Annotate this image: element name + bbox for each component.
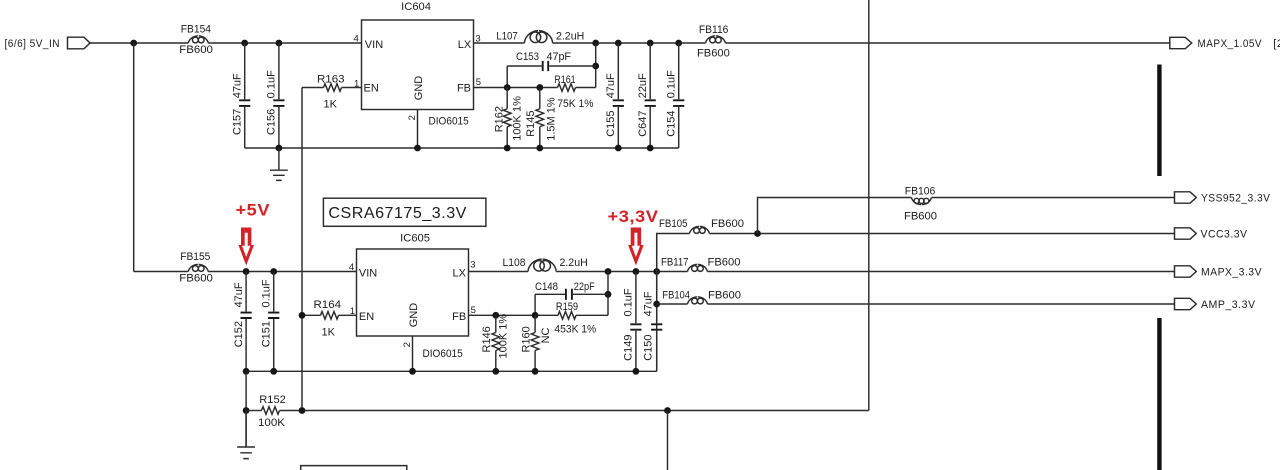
- pin 5 FB of IC605: [452, 305, 476, 323]
- svg-text:47pF: 47pF: [547, 51, 572, 63]
- svg-text:VIN: VIN: [365, 39, 383, 51]
- wire FB117 to MAPX_3.3V port: [707, 271, 1174, 273]
- svg-text:YSS952_3.3V: YSS952_3.3V: [1201, 193, 1271, 205]
- op IC604 regulator box: [362, 20, 474, 110]
- wire IC605 FB pin 5 to R159: [469, 314, 559, 316]
- wire L107 to FB116 (1.05V rail): [553, 42, 706, 44]
- capacitor C647 22uF: [637, 43, 656, 148]
- svg-text:GND: GND: [413, 76, 425, 101]
- svg-text:100K: 100K: [258, 417, 286, 429]
- wire 5V feed to FB155: [134, 271, 189, 273]
- svg-text:+3,3V: +3,3V: [608, 208, 659, 226]
- junction FB / R162 / C153 stub: [504, 84, 511, 91]
- junction C154 top: [675, 40, 682, 47]
- svg-text:EN: EN: [364, 82, 379, 94]
- svg-text:FB600: FB600: [708, 289, 741, 301]
- capacitor C149 0.1uF: [623, 272, 642, 372]
- wire FB155 to IC605 VIN pin 4: [208, 271, 356, 273]
- wire IC604 GND pin 2 to ground rail: [417, 110, 419, 149]
- svg-text:FB106: FB106: [905, 186, 936, 198]
- svg-text:GND: GND: [408, 303, 420, 328]
- wire EN rail up to top sheet: [868, 0, 870, 411]
- junction FB104 tee: [653, 301, 660, 308]
- svg-text:3: 3: [470, 260, 475, 271]
- svg-text:C152: C152: [233, 321, 245, 347]
- wire IC605 GND pin 2 to ground rail: [412, 336, 414, 371]
- wire EN rail branch to lower sheet: [667, 411, 669, 470]
- wire C153 left stub down to FB node: [506, 66, 508, 88]
- capacitor C154 0.1uF: [666, 43, 685, 148]
- input port 5V_IN [6/6]: [5, 37, 91, 50]
- capacitor C156 0.1uF: [266, 43, 285, 148]
- svg-text:22uF: 22uF: [637, 73, 649, 98]
- pin 2 GND of IC604: [407, 76, 425, 121]
- svg-text:47uF: 47uF: [605, 73, 617, 98]
- resistor R161 75K 1%: [554, 74, 595, 110]
- svg-text:FB: FB: [452, 311, 466, 323]
- op IC605 regulator box: [357, 249, 469, 336]
- pin 4 VIN of IC605: [349, 262, 377, 280]
- junction rail R162: [504, 145, 511, 152]
- node +5V / C152 top: [243, 268, 250, 275]
- junction EN rail branch down: [664, 407, 671, 414]
- resistor R146 100K 1%: [481, 314, 510, 372]
- wire EN net vertical (R163/R164/R152): [301, 88, 303, 411]
- svg-text:L107: L107: [496, 30, 517, 42]
- svg-text:FB600: FB600: [904, 210, 937, 222]
- svg-text:R159: R159: [556, 301, 578, 313]
- svg-text:R163: R163: [317, 74, 345, 86]
- svg-text:100K 1%: 100K 1%: [497, 314, 509, 359]
- junction C156 top: [276, 40, 283, 47]
- wire IC604 LX pin 3 to L107: [474, 42, 525, 44]
- svg-text:NC: NC: [540, 327, 552, 343]
- junction rail C151: [270, 368, 277, 375]
- pin 3 LX of IC604: [458, 33, 481, 51]
- wire FB105 to VCC3.3V port: [709, 233, 1174, 235]
- svg-text:2.2uH: 2.2uH: [556, 30, 584, 42]
- ferrite bead FB106: [912, 198, 932, 205]
- resistor R145 1.5M 1%: [525, 88, 558, 149]
- wire R152 to EN-net rail: [280, 410, 869, 412]
- ground rail of IC605 section: [246, 370, 657, 372]
- svg-text:R161: R161: [554, 74, 575, 86]
- capacitor C157 47uF: [232, 43, 251, 148]
- ferrite bead FB155: [188, 264, 208, 271]
- junction R152 left: [243, 407, 250, 414]
- svg-text:FB600: FB600: [179, 44, 213, 56]
- junction rail C149: [633, 368, 640, 375]
- svg-text:1: 1: [354, 78, 359, 89]
- svg-text:FB: FB: [457, 83, 471, 95]
- inductor L108 2.2uH: [528, 259, 556, 271]
- svg-text:2: 2: [407, 115, 418, 120]
- svg-text:1: 1: [350, 306, 355, 317]
- resistor R152 100K: [246, 394, 286, 429]
- svg-text:1K: 1K: [324, 98, 338, 110]
- junction rail C152: [243, 368, 250, 375]
- svg-text:75K 1%: 75K 1%: [557, 98, 593, 110]
- svg-text:MAPX_3.3V: MAPX_3.3V: [1201, 267, 1262, 279]
- junction rail IC604 GND: [414, 145, 421, 152]
- wire node X vertical: [595, 43, 597, 88]
- resistor R162 100K 1%: [493, 88, 523, 149]
- resistor R163 1K: [302, 74, 362, 111]
- svg-text:FB105: FB105: [659, 218, 688, 230]
- bus bar lower right: [1157, 318, 1161, 470]
- resistor R160 NC: [521, 315, 552, 371]
- svg-text:R145: R145: [525, 111, 537, 137]
- svg-text:47uF: 47uF: [233, 282, 245, 307]
- wire branch to FB104: [657, 303, 688, 305]
- svg-text:5: 5: [476, 77, 481, 88]
- junction FB / R160 / C148 stub: [532, 312, 539, 319]
- wire L108 to FB117 (3.3V rail): [556, 271, 687, 273]
- svg-text:C150: C150: [642, 335, 654, 361]
- svg-text:IC605: IC605: [400, 232, 430, 244]
- svg-text:22pF: 22pF: [574, 281, 595, 293]
- output port AMP_3.3V: [1175, 298, 1256, 311]
- node X2 feedback tap on 3.3V rail: [605, 268, 612, 275]
- wire 3.3V branch up to FB105: [657, 234, 690, 272]
- partial title box of next section: [301, 466, 407, 470]
- node X feedback tap on 1.05V rail: [592, 40, 599, 47]
- red arrow pointing to +3.3V node: [628, 228, 644, 266]
- svg-text:DIO6015: DIO6015: [423, 348, 463, 360]
- svg-text:R162: R162: [493, 106, 505, 132]
- svg-text:AMP_3.3V: AMP_3.3V: [1201, 299, 1256, 311]
- svg-text:LX: LX: [458, 39, 472, 51]
- svg-text:DIO6015: DIO6015: [429, 116, 469, 128]
- svg-text:C149: C149: [623, 335, 635, 361]
- junction EN net / R164: [299, 312, 306, 319]
- svg-text:C156: C156: [266, 109, 278, 135]
- junction C647 top: [647, 40, 654, 47]
- svg-text:R164: R164: [314, 299, 342, 311]
- pin 5 FB of IC604: [457, 77, 481, 95]
- svg-text:FB116: FB116: [699, 24, 729, 36]
- capacitor C155 47uF: [605, 43, 624, 148]
- svg-text:4: 4: [349, 262, 354, 273]
- svg-text:47uF: 47uF: [642, 291, 654, 316]
- wire 5V_IN to FB154: [90, 42, 188, 44]
- svg-text:IC604: IC604: [401, 1, 431, 13]
- junction C148 right / node X2: [605, 291, 612, 298]
- svg-text:VIN: VIN: [359, 268, 377, 280]
- pin 2 GND of IC605: [402, 303, 420, 348]
- wire FB154 to IC604 VIN pin 4: [208, 42, 361, 44]
- svg-text:C148: C148: [535, 281, 558, 293]
- svg-text:47uF: 47uF: [232, 73, 244, 98]
- wire FB104 to AMP_3.3V port: [707, 303, 1174, 305]
- svg-text:C647: C647: [637, 111, 649, 137]
- svg-text:FB154: FB154: [181, 23, 211, 35]
- svg-text:MAPX_1.05V: MAPX_1.05V: [1198, 38, 1263, 50]
- node +3.3V / C149 top: [633, 268, 640, 275]
- junction FB / R146: [492, 312, 499, 319]
- pin 4 VIN of IC604: [354, 33, 384, 51]
- junction rail C156: [276, 145, 283, 152]
- svg-text:CSRA67175_3.3V: CSRA67175_3.3V: [328, 205, 467, 222]
- wire node X2 vertical: [607, 272, 609, 316]
- svg-text:C155: C155: [605, 111, 617, 137]
- junction C155 top: [615, 40, 622, 47]
- output port MAPX_3.3V: [1175, 266, 1263, 279]
- junction R152 / EN vertical: [299, 407, 306, 414]
- svg-text:100K 1%: 100K 1%: [512, 96, 524, 141]
- svg-text:LX: LX: [453, 268, 467, 280]
- svg-text:2.2uH: 2.2uH: [560, 257, 588, 269]
- svg-text:[6/6] 5V_IN: [6/6] 5V_IN: [5, 38, 61, 50]
- svg-text:0.1uF: 0.1uF: [666, 70, 678, 98]
- wire rail down to R152 and ground: [245, 371, 247, 447]
- wire IC604 FB pin 5 to R161: [474, 87, 558, 89]
- svg-text:EN: EN: [359, 311, 374, 323]
- wire FB116 to MAPX_1.05V port: [725, 42, 1169, 44]
- inductor L107 2.2uH: [524, 31, 552, 43]
- junction rail IC605 GND: [409, 368, 416, 375]
- svg-text:VCC3.3V: VCC3.3V: [1201, 229, 1248, 241]
- svg-text:4: 4: [354, 33, 359, 44]
- svg-text:FB600: FB600: [697, 48, 730, 60]
- resistor R164 1K: [302, 299, 357, 339]
- ferrite bead FB104: [688, 297, 708, 304]
- svg-text:1K: 1K: [322, 326, 336, 338]
- svg-text:1.5M 1%: 1.5M 1%: [546, 97, 558, 141]
- svg-text:FB104: FB104: [662, 289, 690, 301]
- ground symbol top section: [270, 148, 288, 180]
- junction FB / R145: [536, 84, 543, 91]
- wire FB106 to YSS952_3.3V port: [931, 197, 1174, 199]
- svg-text:L108: L108: [503, 257, 526, 269]
- ferrite bead FB116: [706, 36, 726, 43]
- ferrite bead FB154: [188, 36, 208, 43]
- red arrow pointing to +5V node: [238, 228, 254, 266]
- svg-text:R152: R152: [259, 394, 286, 406]
- output port VCC3.3V: [1175, 228, 1248, 241]
- capacitor C150 47uF with branch line: [642, 234, 662, 372]
- svg-text:C153: C153: [516, 51, 539, 63]
- svg-text:FB600: FB600: [711, 218, 744, 230]
- capacitor C151 0.1uF: [261, 272, 280, 372]
- svg-text:[2/: [2/: [1273, 38, 1280, 50]
- svg-text:5: 5: [471, 305, 476, 316]
- svg-text:0.1uF: 0.1uF: [623, 288, 635, 316]
- wire IC605 LX pin 3 to L108: [469, 271, 529, 273]
- junction rail R145: [536, 145, 543, 152]
- svg-text:+5V: +5V: [236, 202, 271, 220]
- capacitor C148 22pF: [535, 289, 608, 300]
- title box CSRA67175_3.3V: [323, 198, 486, 226]
- output port YSS952_3.3V: [1175, 192, 1271, 205]
- node 5V_IN junction: [130, 40, 137, 47]
- svg-text:FB600: FB600: [708, 257, 741, 269]
- svg-text:453K 1%: 453K 1%: [554, 323, 596, 335]
- pin 3 LX of IC605: [453, 260, 476, 280]
- junction VCC / YSS branch: [754, 230, 761, 237]
- capacitor C152 47uF: [233, 272, 252, 372]
- wire branch up to YSS952 line: [758, 198, 912, 234]
- ferrite bead FB105: [690, 226, 710, 233]
- junction rail C155: [615, 145, 622, 152]
- junction rail C647: [647, 145, 654, 152]
- junction rail R160: [532, 368, 539, 375]
- ground rail of IC604 section: [245, 147, 679, 149]
- svg-text:2: 2: [402, 342, 413, 347]
- pin 1 EN of IC605: [350, 306, 375, 323]
- svg-text:FB600: FB600: [179, 273, 213, 285]
- capacitor C153 47pF: [507, 61, 596, 71]
- svg-text:R146: R146: [481, 326, 493, 352]
- svg-text:0.1uF: 0.1uF: [266, 70, 278, 98]
- junction 3.3V branch: [653, 268, 660, 275]
- junction C153 right / node X: [592, 63, 599, 70]
- resistor R159 453K 1%: [554, 301, 608, 335]
- ferrite bead FB117: [688, 264, 708, 271]
- wire 5V_IN vertical feed down to IC605 section: [133, 43, 135, 272]
- junction C157 top: [241, 40, 248, 47]
- svg-text:C154: C154: [666, 111, 678, 137]
- ground symbol bottom section: [237, 411, 255, 459]
- svg-text:R160: R160: [521, 326, 533, 352]
- bus bar upper right: [1157, 65, 1161, 177]
- svg-text:FB155: FB155: [180, 251, 210, 263]
- svg-text:0.1uF: 0.1uF: [261, 279, 273, 307]
- pin 1 EN of IC604: [354, 78, 379, 94]
- output port MAPX_1.05V: [1170, 37, 1262, 50]
- junction C151 top: [270, 268, 277, 275]
- svg-text:FB117: FB117: [661, 257, 689, 269]
- svg-text:C151: C151: [261, 321, 273, 347]
- wire 3.3V branch down to FB104: [656, 272, 658, 372]
- wire C148 left stub down to FB node: [534, 294, 536, 315]
- junction rail R146: [492, 368, 499, 375]
- svg-text:C157: C157: [232, 109, 244, 135]
